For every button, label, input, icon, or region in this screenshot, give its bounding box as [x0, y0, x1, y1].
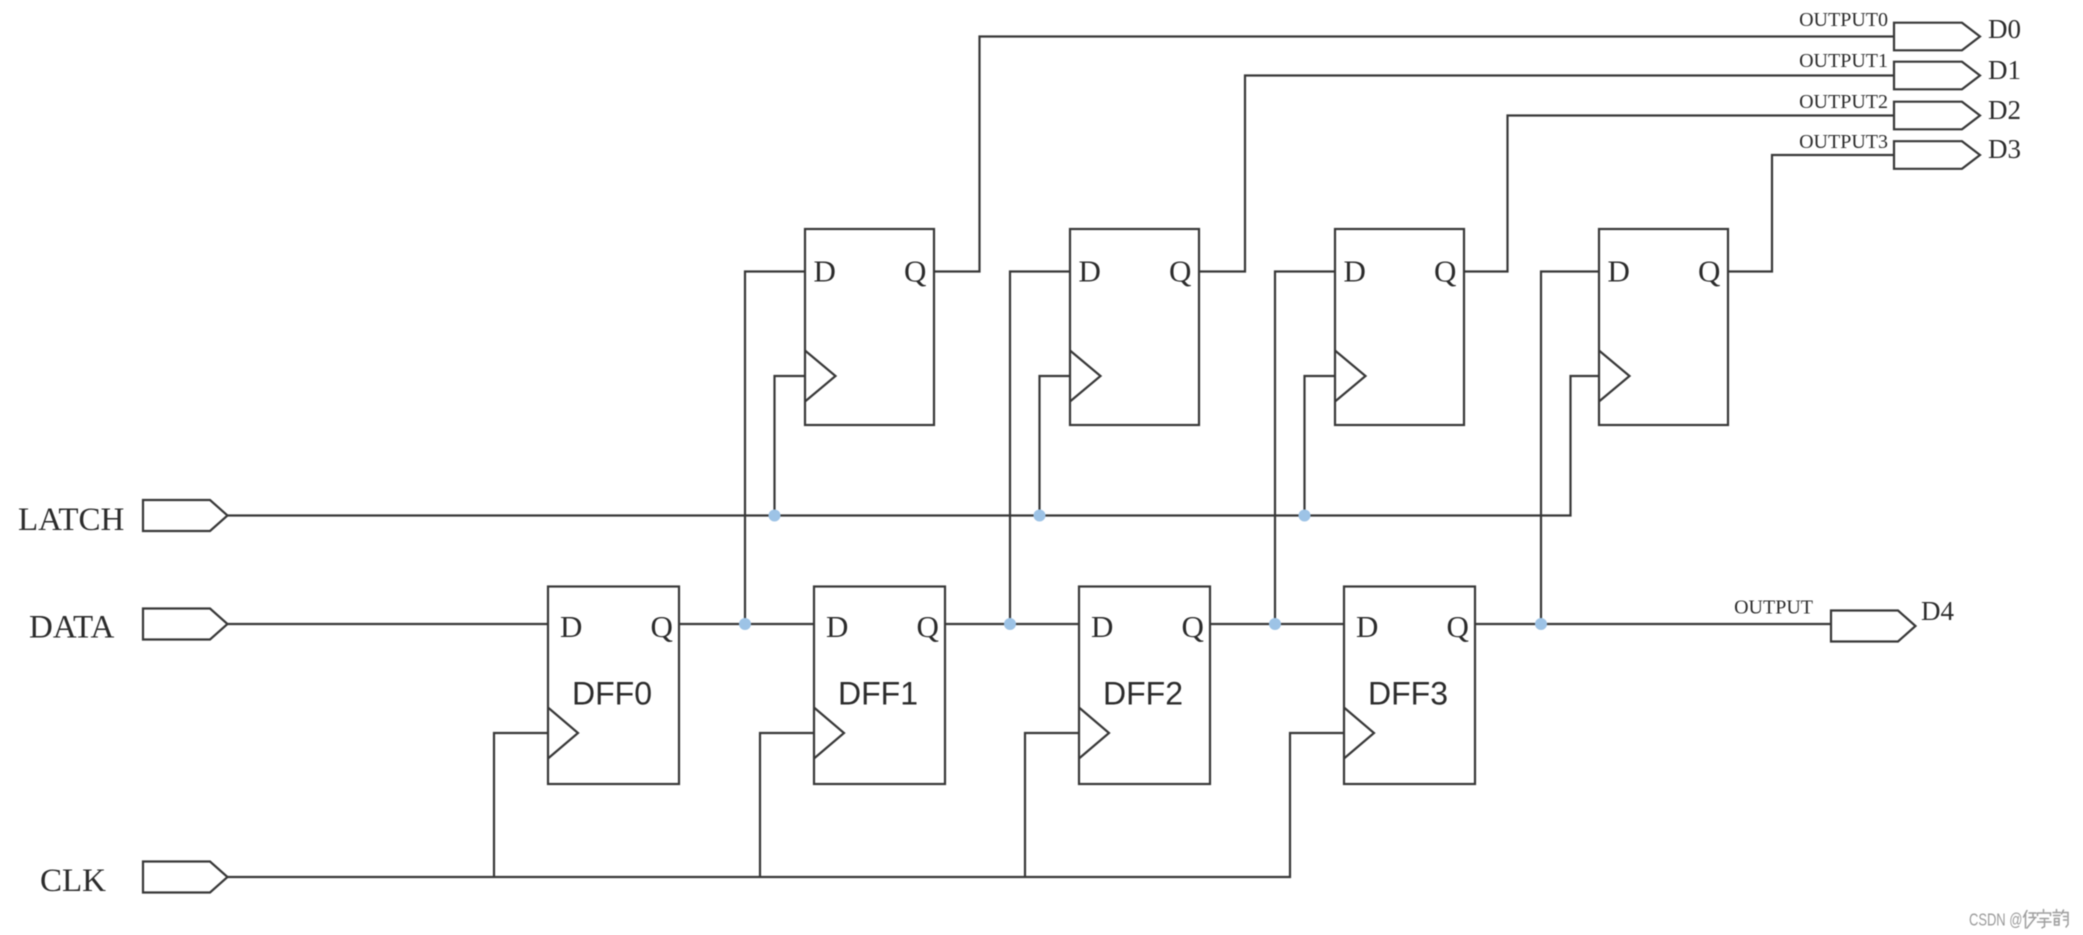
node junction on LATCH at U6 clock: [1034, 510, 1046, 522]
node junction on LATCH at U5 clock: [769, 510, 781, 522]
svg-text:D: D: [1356, 609, 1378, 644]
wire LATCH to U6 clock: [1040, 376, 1071, 516]
svg-text:CSDN @: CSDN @: [1969, 911, 2022, 930]
svg-text:Q: Q: [1182, 609, 1204, 644]
svg-text:D: D: [560, 609, 582, 644]
flip-flop U5 box (latch register bit0): [805, 229, 934, 425]
svg-text:Q: Q: [651, 609, 673, 644]
flip-flop DFF3 box: [1344, 587, 1475, 785]
port D4 connector: [1831, 611, 1916, 642]
svg-text:Q: Q: [1434, 254, 1456, 289]
watermark chinese glyphs: [2024, 910, 2069, 929]
clock triangle U7: [1335, 351, 1366, 402]
wire LATCH to U5 clock: [775, 376, 806, 516]
svg-text:LATCH: LATCH: [18, 502, 124, 538]
clock triangle U5: [805, 351, 836, 402]
svg-text:OUTPUT: OUTPUT: [1734, 597, 1813, 619]
svg-text:D0: D0: [1988, 14, 2021, 44]
wire DFF1.Q to DFF2.D: [945, 623, 1079, 625]
port CLK connector: [143, 862, 228, 893]
port LATCH connector: [143, 500, 228, 531]
svg-text:OUTPUT2: OUTPUT2: [1799, 91, 1888, 113]
clock triangle U6: [1070, 351, 1101, 402]
clock triangle DFF0: [548, 708, 578, 759]
flip-flop DFF1 box: [814, 587, 945, 785]
svg-text:D: D: [814, 254, 836, 289]
wire DFF3.Q to OUTPUT D4: [1475, 623, 1831, 625]
flip-flop U7 box (latch register bit2): [1335, 229, 1464, 425]
wire CLK bus: [228, 733, 1345, 877]
wire DFF0.Q to DFF1.D: [679, 623, 814, 625]
flip-flop DFF0 box: [548, 587, 679, 785]
wire node to U7.D: [1275, 272, 1335, 625]
svg-text:Q: Q: [1698, 254, 1720, 289]
svg-text:D: D: [1079, 254, 1101, 289]
wire CLK to DFF1 clock: [760, 733, 814, 877]
svg-text:DFF2: DFF2: [1103, 676, 1183, 712]
wire CLK to DFF2 clock: [1025, 733, 1079, 877]
port D1 connector: [1894, 62, 1980, 90]
node junction on LATCH at U7 clock: [1299, 510, 1311, 522]
port D2 connector: [1894, 102, 1980, 130]
svg-text:D: D: [1344, 254, 1366, 289]
svg-text:D2: D2: [1988, 95, 2021, 125]
flip-flop U6 box (latch register bit1): [1070, 229, 1199, 425]
svg-text:DFF0: DFF0: [572, 676, 652, 712]
clock triangle DFF2: [1079, 708, 1109, 759]
clock triangle DFF1: [814, 708, 844, 759]
flip-flop DFF2 box: [1079, 587, 1210, 785]
clock triangle DFF3: [1344, 708, 1374, 759]
svg-text:D: D: [826, 609, 848, 644]
svg-text:DFF1: DFF1: [838, 676, 918, 712]
node junction DATA at DFF2.Q: [1269, 618, 1281, 630]
wire node to U8.D: [1541, 272, 1599, 625]
port D0 connector: [1894, 23, 1980, 51]
wire LATCH to U7 clock: [1305, 376, 1336, 516]
svg-text:DFF3: DFF3: [1368, 676, 1448, 712]
svg-text:CLK: CLK: [40, 863, 106, 899]
svg-text:D3: D3: [1988, 134, 2021, 164]
svg-text:D: D: [1608, 254, 1630, 289]
svg-text:OUTPUT0: OUTPUT0: [1799, 9, 1888, 31]
svg-text:Q: Q: [1169, 254, 1191, 289]
svg-text:Q: Q: [904, 254, 926, 289]
port D3 connector: [1894, 141, 1980, 169]
wire U5.Q to OUTPUT0: [934, 37, 1894, 272]
wire U6.Q to OUTPUT1: [1199, 76, 1894, 272]
wire U7.Q to OUTPUT2: [1464, 116, 1894, 272]
wire U8.Q to OUTPUT3: [1728, 155, 1894, 272]
wire node to U6.D: [1010, 272, 1070, 625]
wire DFF2.Q to DFF3.D: [1210, 623, 1344, 625]
node junction DATA at DFF1.Q: [1004, 618, 1016, 630]
wire DATA input: [228, 623, 549, 625]
node junction DATA at DFF3.Q: [1535, 618, 1547, 630]
node junction DATA at DFF0.Q: [739, 618, 751, 630]
svg-text:Q: Q: [917, 609, 939, 644]
svg-text:D: D: [1091, 609, 1113, 644]
svg-text:D4: D4: [1921, 596, 1954, 626]
flip-flop U8 box (latch register bit3): [1599, 229, 1728, 425]
watermark CSDN text: [1969, 911, 2022, 930]
wire LATCH bus: [228, 376, 1600, 516]
wire node to U5.D: [745, 272, 805, 625]
svg-text:D1: D1: [1988, 55, 2021, 85]
svg-text:OUTPUT1: OUTPUT1: [1799, 50, 1888, 72]
svg-text:DATA: DATA: [29, 610, 115, 646]
wire CLK to DFF0 clock: [494, 733, 548, 877]
svg-text:OUTPUT3: OUTPUT3: [1799, 131, 1888, 153]
port DATA connector: [143, 609, 228, 640]
svg-text:Q: Q: [1447, 609, 1469, 644]
clock triangle U8: [1599, 351, 1630, 402]
